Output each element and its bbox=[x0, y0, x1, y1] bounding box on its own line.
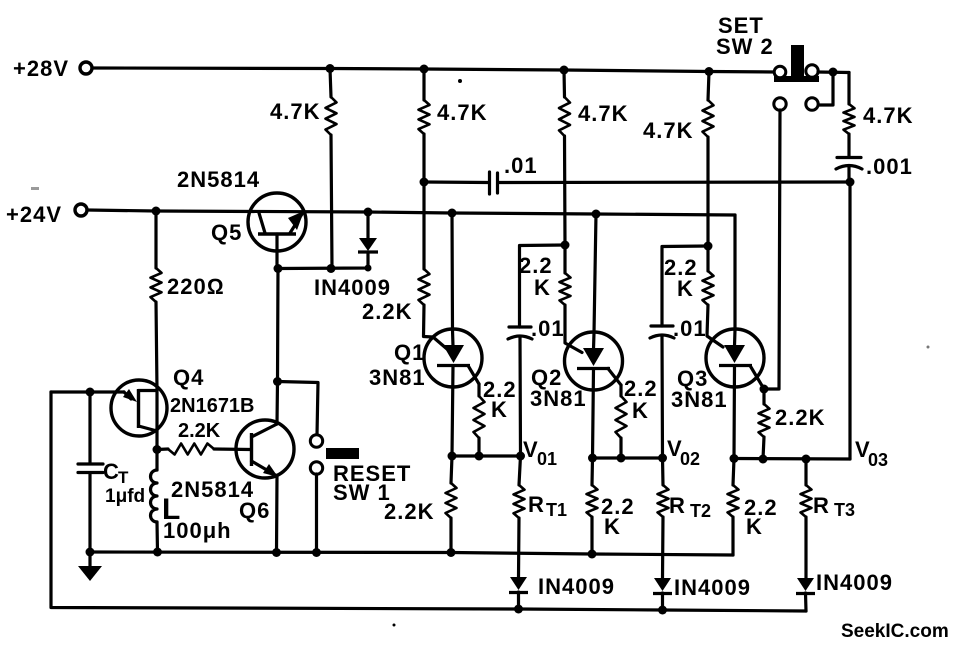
junction CT bottom bbox=[86, 548, 95, 557]
wire Q6 collector up bbox=[275, 382, 279, 425]
junction RT3-V03 bbox=[802, 455, 811, 464]
wire base node down to Q6 collector bbox=[276, 269, 280, 382]
junction R1 bottom bbox=[327, 264, 336, 273]
junction Q3 gate node bbox=[760, 385, 769, 394]
capacitor C.01 top coupling bbox=[424, 153, 850, 194]
resistor RT2 bbox=[658, 458, 712, 578]
capacitor CT 1ufd bbox=[78, 392, 145, 552]
resistor 2.2K stage1 gate chain bbox=[362, 182, 447, 349]
svg-text:01: 01 bbox=[537, 449, 557, 469]
capacitor C1 .01 coupling bbox=[508, 245, 565, 456]
wire 220ohm line through Q4 bbox=[155, 390, 158, 450]
resistor R1 4.7K bbox=[270, 69, 337, 269]
svg-text:4.7K: 4.7K bbox=[437, 100, 487, 125]
svg-text:2.2K: 2.2K bbox=[178, 420, 221, 442]
resistor R5 4.7K bbox=[844, 73, 914, 158]
junction RT1-V01 bbox=[516, 452, 525, 461]
wire CT top node bbox=[51, 390, 124, 393]
svg-text:K: K bbox=[534, 275, 551, 300]
resistor 220ohm bbox=[151, 211, 225, 390]
junction rail-Q2 anode bbox=[592, 210, 601, 219]
wire ground rail bbox=[90, 552, 733, 555]
wire SW2 lower-left contact down to Q3 gate node bbox=[764, 110, 780, 389]
node +24V terminal bbox=[6, 202, 87, 227]
svg-text:4.7K: 4.7K bbox=[863, 103, 913, 128]
junction D1-charge line bbox=[514, 605, 523, 614]
junction Q6 collector node bbox=[273, 377, 282, 386]
svg-text:T: T bbox=[118, 468, 129, 487]
junction rail-220ohm bbox=[152, 207, 161, 216]
junction rail-R2 bbox=[420, 65, 429, 74]
resistor R4 4.7K bbox=[643, 72, 714, 247]
resistor RT1 bbox=[514, 456, 568, 577]
svg-text:+24V: +24V bbox=[6, 202, 62, 227]
svg-text:K: K bbox=[604, 514, 621, 539]
wire +28V rail bbox=[92, 68, 775, 72]
svg-text:.01: .01 bbox=[673, 316, 707, 341]
svg-text:Q4: Q4 bbox=[173, 365, 204, 390]
speck bbox=[393, 624, 396, 627]
junction Q3 cathode-V03 bbox=[730, 454, 739, 463]
svg-text:Q5: Q5 bbox=[211, 220, 242, 245]
wire node to RESET switch bbox=[278, 382, 319, 436]
svg-text:100μh: 100μh bbox=[163, 518, 232, 543]
junction timing line right end bbox=[846, 178, 855, 187]
svg-text:.01: .01 bbox=[504, 153, 538, 178]
transistor Q4 2N1671B unijunction bbox=[111, 365, 255, 436]
transistor Q5 2N5814 bbox=[177, 167, 306, 268]
svg-text:K: K bbox=[632, 398, 649, 423]
svg-text:IN4009: IN4009 bbox=[816, 570, 893, 595]
switch SW2 SET pushbutton bbox=[716, 13, 819, 110]
node V01 output line bbox=[452, 437, 557, 469]
diode D1 1N4009 bbox=[509, 574, 615, 609]
speck bbox=[31, 187, 39, 190]
node V02 output line bbox=[593, 436, 701, 469]
svg-text:02: 02 bbox=[680, 449, 700, 469]
svg-text:SW 1: SW 1 bbox=[333, 480, 391, 505]
svg-text:IN4009: IN4009 bbox=[538, 574, 615, 599]
node +28V terminal bbox=[13, 56, 92, 81]
switch SW1 RESET pushbutton bbox=[310, 435, 411, 553]
resistor 2.2K Q1 cathode gate bbox=[474, 377, 517, 456]
svg-text:2N5814: 2N5814 bbox=[177, 167, 260, 192]
resistor 2.2K Q6 base bbox=[157, 420, 250, 455]
wire V03 feedback vertical bbox=[848, 182, 851, 459]
svg-text:.001: .001 bbox=[866, 154, 913, 179]
junction gate resistor-V02 bbox=[617, 454, 626, 463]
resistor 2.2K Q3 gate bbox=[759, 389, 826, 459]
junction 2.2K stage1-ground bbox=[447, 548, 456, 557]
wire SW2 lower-right contact stub bbox=[819, 72, 833, 105]
svg-text:4.7K: 4.7K bbox=[643, 118, 693, 143]
junction rail-diode D0 bbox=[364, 208, 373, 217]
diode D2 1N4009 bbox=[653, 575, 751, 610]
wire SW2 right contact to corner bbox=[818, 70, 849, 74]
junction R2-timing line bbox=[420, 178, 429, 187]
svg-text:IN4009: IN4009 bbox=[674, 575, 751, 600]
junction CT top bbox=[86, 388, 95, 397]
resistor 2.2K stage3 cathode load bbox=[728, 459, 778, 556]
transistor Q6 2N5814 bbox=[171, 420, 294, 523]
svg-text:.01: .01 bbox=[531, 316, 565, 341]
junction Q2 cathode-V02 bbox=[588, 454, 597, 463]
junction rail-R1 bbox=[326, 64, 335, 73]
junction L bottom bbox=[153, 548, 162, 557]
svg-text:K: K bbox=[491, 397, 508, 422]
svg-text:T2: T2 bbox=[690, 501, 711, 521]
capacitor C2 .01 coupling bbox=[650, 246, 708, 458]
junction rail-R4 bbox=[705, 67, 714, 76]
svg-text:4.7K: 4.7K bbox=[270, 99, 320, 124]
wire charge line loop left and bottom bbox=[51, 392, 806, 611]
resistor RT3 bbox=[801, 459, 856, 578]
ground bbox=[78, 552, 102, 581]
svg-text:3N81: 3N81 bbox=[671, 387, 728, 412]
resistor 2.2K stage1 cathode load bbox=[384, 456, 457, 552]
thyristor Q3 3N81 bbox=[671, 215, 764, 458]
svg-text:SW 2: SW 2 bbox=[716, 34, 774, 59]
capacitor .001 bbox=[836, 154, 913, 182]
junction Q1 cathode-V01 bbox=[448, 452, 457, 461]
svg-text:3N81: 3N81 bbox=[530, 386, 587, 411]
svg-text:3N81: 3N81 bbox=[369, 365, 426, 390]
junction base node Q5 bbox=[274, 264, 283, 273]
resistor R3 4.7K bbox=[559, 70, 628, 245]
junction hook stage2 bbox=[561, 241, 570, 250]
junction gate resistor-V03 bbox=[759, 455, 768, 464]
svg-text:2.2K: 2.2K bbox=[775, 405, 825, 430]
speck bbox=[458, 79, 462, 83]
svg-text:1μfd: 1μfd bbox=[105, 486, 145, 507]
resistor 2.2K stage3 gate chain bbox=[703, 246, 724, 347]
resistor 2.2K stage2 gate chain bbox=[560, 245, 583, 353]
resistor 2.2K stage2 cathode load bbox=[587, 458, 635, 554]
speck bbox=[927, 346, 930, 349]
svg-text:2.2K: 2.2K bbox=[384, 499, 434, 524]
diode D3 1N4009 bbox=[796, 570, 893, 611]
svg-text:T3: T3 bbox=[834, 500, 855, 520]
junction 2.2K stage2-ground bbox=[588, 550, 597, 559]
svg-text:2N1671B: 2N1671B bbox=[170, 395, 255, 417]
diode D0 1N4009 bbox=[278, 212, 391, 300]
junction gate resistor-V01 bbox=[475, 452, 484, 461]
junction D2-charge line bbox=[658, 606, 667, 615]
svg-text:Q6: Q6 bbox=[239, 498, 270, 523]
node V03 output line bbox=[734, 437, 888, 470]
resistor R2 4.7K bbox=[419, 69, 488, 182]
svg-text:K: K bbox=[677, 276, 694, 301]
junction hook stage3 bbox=[704, 242, 713, 251]
svg-text:IN4009: IN4009 bbox=[314, 275, 391, 300]
svg-text:4.7K: 4.7K bbox=[578, 101, 628, 126]
junction RT2-V02 bbox=[658, 454, 667, 463]
resistor 2.2K Q2 cathode gate bbox=[616, 376, 658, 458]
junction SW1-ground bbox=[312, 548, 321, 557]
inductor L 100uh bbox=[151, 450, 232, 553]
junction diode corner bbox=[365, 265, 372, 272]
svg-text:Q1: Q1 bbox=[394, 340, 425, 365]
thyristor Q2 3N81 bbox=[530, 214, 623, 458]
svg-text:R: R bbox=[669, 493, 686, 518]
svg-text:R: R bbox=[528, 492, 545, 517]
svg-text:03: 03 bbox=[868, 450, 888, 470]
svg-text:SeekIC.com: SeekIC.com bbox=[841, 621, 949, 642]
wire Q6 emitter down bbox=[275, 476, 279, 553]
junction Q6 emitter-ground bbox=[272, 548, 281, 557]
thyristor Q1 3N81 bbox=[369, 213, 482, 456]
svg-text:2.2K: 2.2K bbox=[362, 299, 412, 324]
svg-text:+28V: +28V bbox=[13, 56, 69, 81]
svg-text:K: K bbox=[746, 514, 763, 539]
junction SW2 stub bbox=[829, 68, 838, 77]
svg-text:T1: T1 bbox=[546, 500, 567, 520]
junction rail-Q1 anode bbox=[448, 209, 457, 218]
wire +24V rail bbox=[87, 210, 735, 215]
junction rail-R3 bbox=[560, 66, 569, 75]
svg-text:220Ω: 220Ω bbox=[167, 274, 225, 299]
svg-text:R: R bbox=[813, 493, 830, 518]
junction UJT base1 node bbox=[153, 445, 162, 454]
